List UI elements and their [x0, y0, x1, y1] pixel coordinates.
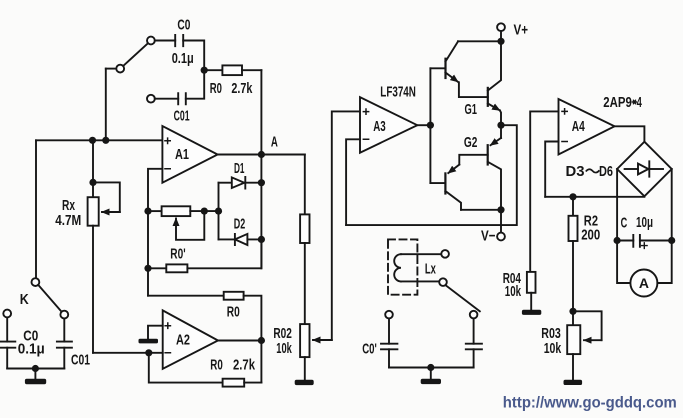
transistor G2 collector — [488, 162, 501, 210]
svg-text:2.7k: 2.7k — [231, 80, 252, 97]
resistor R2 — [569, 216, 578, 241]
wire to resistor R0p — [148, 267, 166, 269]
capacitor C01 (top) — [178, 93, 186, 104]
switch S1 arm — [123, 44, 147, 66]
wire ground stem — [34, 369, 36, 379]
wire R03 bottom stem — [572, 354, 574, 380]
svg-text:C: C — [621, 214, 628, 231]
wire right contact to C01 bottom — [63, 319, 65, 342]
wire A2 output — [218, 340, 261, 342]
potentiometer R03 body — [567, 325, 580, 354]
op-amp A1 plus minus pins — [164, 137, 171, 168]
node junction D2 anode — [258, 236, 265, 243]
svg-text:A: A — [639, 275, 649, 291]
terminal circle right C0' branch — [470, 311, 478, 319]
resistor R0 (middle) — [224, 292, 244, 300]
wire to R0p pot — [148, 210, 162, 212]
transistor G1 collector — [488, 41, 501, 90]
inductor Lx coil — [394, 254, 401, 281]
switch arm at Lx — [446, 285, 480, 311]
svg-text:4.7M: 4.7M — [55, 212, 81, 229]
transistor Q1 base wire — [430, 67, 445, 69]
ground symbol (Lx network) — [421, 379, 441, 384]
svg-text:A1: A1 — [175, 146, 189, 163]
wire R03 wiper loop — [573, 311, 602, 340]
transistor Q1 collector — [446, 41, 459, 61]
terminal circle Lx top — [441, 250, 449, 258]
svg-text:D1: D1 — [234, 160, 245, 177]
transistor Q1 base bar — [444, 59, 446, 78]
svg-text:C01: C01 — [174, 107, 190, 124]
diode D2 — [235, 234, 248, 245]
wire Lx bottom lead — [401, 280, 439, 282]
wire R04 bottom stem — [530, 293, 532, 310]
capacitor C plus sign — [642, 243, 648, 249]
ammeter A body — [630, 270, 657, 297]
wire to diode D1 — [219, 182, 232, 184]
wire V+ stem — [500, 31, 502, 41]
wire R02 chain upper vertical — [304, 155, 306, 215]
wire switch common drop — [105, 69, 107, 141]
resistor R0 2.7k (top feedback) — [222, 65, 242, 75]
switch K left contact — [3, 310, 11, 318]
svg-text:C0: C0 — [177, 17, 190, 34]
wire A4 noninverting input — [530, 111, 558, 272]
node junction C right — [668, 237, 675, 244]
tilde between D3 and D6 — [586, 169, 600, 172]
wire bridge bottom feedback run — [545, 196, 644, 198]
transistor Q2 base bar — [444, 173, 446, 193]
wire A1 output to node A — [218, 154, 262, 156]
node junction ground rail — [32, 365, 39, 372]
ground symbol (bottom left) — [25, 379, 46, 384]
svg-text:2.7k: 2.7k — [233, 356, 255, 373]
bridge inner diode lead right — [649, 168, 663, 170]
capacitor C0 (top) — [175, 35, 183, 46]
svg-text:10k: 10k — [505, 283, 522, 300]
node junction diode bus tap — [215, 208, 222, 215]
svg-text:R0: R0 — [210, 80, 222, 97]
switch K arm — [38, 285, 62, 313]
resistor R0 2.7k (A2 feedback) — [223, 379, 245, 387]
svg-text:V−: V− — [481, 228, 496, 245]
op-amp A3 — [360, 97, 417, 153]
svg-text:10k: 10k — [544, 340, 562, 357]
node junction push-pull output — [497, 122, 504, 129]
svg-text:V+: V+ — [514, 21, 529, 38]
wire C right lead — [640, 240, 672, 242]
wire A1 inverting input — [148, 169, 162, 296]
transistor G2 base bar — [487, 145, 489, 164]
wire C0' ground rail — [389, 367, 474, 369]
svg-text:K: K — [20, 291, 29, 308]
op-amp A4 plus minus pins — [561, 108, 568, 142]
wire A2 feedback drop — [149, 353, 223, 383]
bridge inner diode — [638, 161, 649, 176]
transistor Q2 base wire — [430, 182, 445, 184]
wire R02 wiper to A3 noninverting — [332, 111, 360, 340]
dashed enclosure for Lx — [388, 239, 417, 294]
wire R0 to node A vertical — [242, 69, 261, 71]
capacitor C 10u — [633, 235, 640, 247]
potentiometer R02 body — [300, 324, 309, 357]
node junction Rx wiper tap — [89, 179, 96, 186]
svg-text:G2: G2 — [464, 134, 478, 151]
capacitor C01 (bottom) — [57, 342, 72, 348]
svg-text:C0': C0' — [362, 340, 377, 357]
svg-text:A: A — [271, 133, 278, 150]
node junction R0p resistor line — [144, 265, 151, 272]
wire C0 bottom to ground rail — [6, 348, 8, 369]
wire junction to R0 — [204, 69, 222, 71]
wire D1 to node A vertical — [245, 182, 261, 184]
node junction A3 output — [427, 122, 434, 129]
op-amp A3 plus minus pins — [363, 108, 370, 139]
wire lower contact to C01 — [155, 98, 178, 100]
diode D1 — [232, 177, 246, 189]
switch K common contact — [32, 278, 40, 286]
resistor (R02 chain upper) — [300, 214, 309, 243]
ground symbol (R04) — [522, 310, 541, 315]
svg-text:R0: R0 — [210, 356, 223, 373]
transistor Q2 emitter with arrow — [448, 165, 459, 173]
wire Rx branch vertical upper — [92, 140, 94, 197]
wire bottom rail to V- node — [461, 209, 501, 211]
wire Q2 emitter to G2 base — [459, 155, 487, 165]
svg-text:G1: G1 — [465, 101, 478, 118]
node junction R03 top — [569, 308, 576, 315]
svg-text:C01: C01 — [71, 351, 90, 368]
switch S1 lower contact — [147, 95, 155, 103]
capacitor C0 (bottom) — [1, 342, 16, 348]
svg-text:R0: R0 — [227, 303, 240, 320]
wire G1 emitter to output node — [500, 110, 501, 125]
op-amp A1 — [162, 126, 217, 183]
node junction R2 top — [569, 193, 576, 200]
wire left contact to C0 bottom — [6, 317, 8, 341]
node A junction dot — [258, 151, 265, 158]
capacitor C0' right — [466, 344, 482, 350]
svg-text:D2: D2 — [234, 215, 246, 232]
node junction A2 inverting — [145, 349, 152, 356]
node junction on input rail (switch feed) — [102, 137, 109, 144]
svg-text:D3: D3 — [566, 163, 585, 180]
wire R0p to node A vertical corner — [187, 239, 261, 268]
svg-text:LF374N: LF374N — [380, 83, 416, 100]
ground symbol (R02) — [295, 380, 314, 385]
op-amp A4 — [559, 99, 615, 155]
wire A4 output — [615, 126, 645, 141]
node junction C0' rail — [427, 364, 434, 371]
switch S1 upper contact — [147, 37, 155, 45]
wire ground stem Lx — [430, 368, 432, 379]
potentiometer R0p upper body — [162, 206, 191, 216]
wire Rx wiper loop — [93, 182, 120, 212]
switch S1 common contact — [116, 65, 124, 73]
svg-text:http://www.go-gddq.com: http://www.go-gddq.com — [503, 394, 677, 411]
wire node A vertical feedback bus — [260, 70, 262, 268]
wire C01 bottom to ground rail — [63, 348, 65, 369]
wire A2 inverting input — [93, 352, 163, 354]
wire R0 middle feedback run — [148, 295, 224, 297]
wire A4 inverting input — [545, 142, 558, 197]
svg-text:200: 200 — [581, 227, 600, 244]
wire Rx branch vertical lower — [92, 226, 94, 353]
wire node A to R02 chain — [261, 154, 304, 156]
terminal circle Lx bottom — [439, 278, 447, 286]
transistor G2 emitter wire from output — [500, 125, 502, 138]
wire Q1 emitter to G1 base — [459, 82, 488, 97]
wire bridge left arm drop — [616, 169, 618, 241]
terminal V- circle — [497, 233, 505, 241]
transistor G1 emitter with arrow — [488, 104, 500, 111]
wire D2 to node A vertical — [247, 238, 261, 240]
transistor Q2 collector — [445, 191, 461, 210]
R02 wiper arrow — [313, 339, 332, 341]
wire C left lead — [617, 240, 633, 242]
wire to switch common circle — [106, 68, 117, 70]
wire R2 top stem — [572, 197, 574, 216]
node junction A2 output — [258, 337, 265, 344]
wire C0 to right vertical — [183, 41, 204, 71]
asterisk of 2AP9*4 — [632, 100, 637, 105]
wire diode left vertical — [218, 183, 220, 240]
ground bar at A2 input — [139, 339, 159, 344]
wire R02 bottom stem — [304, 357, 306, 380]
svg-text:Lx: Lx — [425, 260, 436, 277]
pot R0p wiper arrow — [175, 219, 177, 223]
switch K right contact — [60, 311, 68, 319]
wire R2 bottom to R03 node — [572, 241, 574, 311]
wire A3 output — [417, 124, 430, 126]
wire left branch drop — [388, 318, 390, 343]
transistor Q1 emitter with arrow — [446, 73, 458, 82]
node junction on input rail (Rx tap) — [89, 137, 96, 144]
node junction V+ rail — [497, 38, 504, 45]
potentiometer Rx body — [88, 197, 99, 226]
wire pot to diode bus — [190, 210, 218, 212]
transistor G1 base bar — [487, 88, 489, 106]
wire A2 noninverting stub — [148, 326, 163, 339]
resistor R0p lower — [166, 264, 187, 272]
wire V+ top rail — [458, 40, 501, 42]
svg-text:A2: A2 — [176, 331, 190, 348]
wire output to feedback loop — [346, 125, 517, 225]
wire R02 chain middle vertical — [304, 243, 306, 324]
wire C01 to right vertical — [186, 70, 204, 99]
wire feedback resistor to vertical — [244, 382, 261, 384]
wire upper contact to C0 — [155, 40, 175, 42]
ground symbol (R03) — [564, 380, 583, 385]
bridge inner diode lead left — [625, 168, 638, 170]
wire R03 top stem — [572, 311, 574, 325]
terminal V+ circle — [497, 23, 505, 31]
svg-text:R0': R0' — [170, 245, 185, 262]
svg-text:A4: A4 — [572, 118, 585, 135]
svg-text:A3: A3 — [373, 118, 386, 135]
node junction at R0p pot line — [144, 208, 151, 215]
node junction V- rail — [497, 206, 504, 213]
wire bottom ground rail — [7, 368, 64, 370]
wire ammeter left branch — [617, 241, 630, 284]
Rx wiper arrow — [102, 211, 120, 213]
wire left cap to rail — [388, 349, 390, 367]
svg-text:2AP9: 2AP9 — [603, 94, 632, 111]
wire left vertical to switch K — [35, 140, 37, 278]
node junction C left — [614, 237, 621, 244]
wire base bus vertical — [429, 68, 431, 183]
diode bridge D3-D6 diamond — [617, 142, 672, 197]
capacitor C0' left — [381, 344, 397, 350]
svg-text:10k: 10k — [276, 340, 292, 357]
wire pot wiper loop — [176, 211, 204, 240]
node junction C0/C01/R0 — [201, 67, 208, 74]
wire R0 to lower vertical — [244, 296, 262, 383]
wire bridge right arm drop — [671, 169, 673, 241]
resistor R04 — [527, 272, 536, 293]
wire right cap to rail — [473, 349, 475, 367]
op-amp A2 plus minus pins — [164, 322, 171, 353]
svg-text:0.1μ: 0.1μ — [172, 50, 194, 67]
wire Lx top lead — [401, 253, 441, 255]
wire ammeter right branch — [657, 241, 671, 284]
terminal circle left C0' branch — [385, 311, 393, 319]
wire A3 inverting input — [346, 139, 360, 225]
wire to diode D2 — [219, 238, 235, 240]
node junction pot right — [201, 208, 208, 215]
node junction D1 cathode — [258, 179, 265, 186]
wire V- stem — [500, 210, 502, 233]
svg-text:10μ: 10μ — [636, 214, 653, 231]
svg-text:0.1μ: 0.1μ — [18, 340, 45, 357]
R03 wiper arrow — [584, 339, 602, 341]
svg-text:D6: D6 — [599, 163, 613, 180]
op-amp A2 — [163, 310, 218, 368]
wire right branch drop — [473, 318, 475, 343]
wire A1 noninverting input rail — [36, 139, 162, 141]
svg-text:4: 4 — [637, 94, 643, 111]
transistor G2 emitter with arrow — [491, 138, 502, 145]
